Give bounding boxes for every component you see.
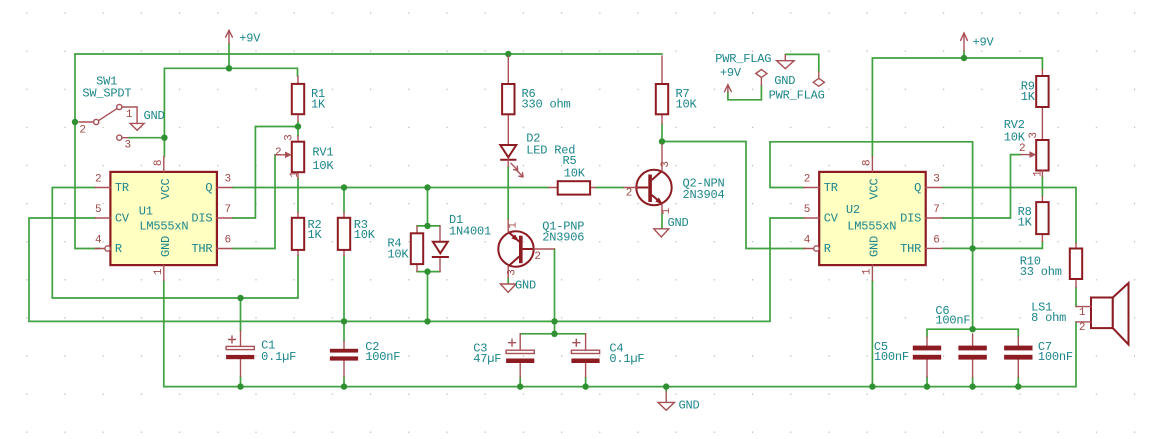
svg-text:1: 1 xyxy=(289,171,301,178)
capacitor C5 xyxy=(874,337,941,377)
wire +9V left stem xyxy=(228,44,230,69)
svg-text:4: 4 xyxy=(804,235,811,247)
svg-text:GND: GND xyxy=(679,399,700,413)
wire +9V rail1 top from switch to R7 xyxy=(75,53,662,55)
pin 5 U2 CV xyxy=(804,204,819,218)
op-amp U2 LM555xN body xyxy=(819,172,926,265)
wire R4 D1 top bar xyxy=(417,225,440,227)
junction +9V left xyxy=(226,65,232,71)
svg-text:1: 1 xyxy=(1079,307,1086,319)
svg-text:THR: THR xyxy=(900,242,921,256)
svg-text:1: 1 xyxy=(126,109,133,121)
wire U1 GND column xyxy=(163,281,165,387)
svg-text:CV: CV xyxy=(115,212,130,226)
resistor R8 xyxy=(1018,196,1049,241)
svg-text:100nF: 100nF xyxy=(1038,350,1073,364)
junction Q line R3 xyxy=(341,184,347,190)
svg-text:10K: 10K xyxy=(312,159,334,173)
svg-text:LED Red: LED Red xyxy=(526,144,575,158)
ground symbol bottom center xyxy=(658,392,700,413)
power symbol +9V at PWR_FLAG xyxy=(715,52,771,92)
resistor R4 xyxy=(387,226,423,272)
power symbol +9V left xyxy=(226,30,262,45)
pin 7 U1 DIS xyxy=(217,204,232,218)
pin 3 U1 Q xyxy=(217,174,232,188)
wire C1 bottom to bus xyxy=(240,377,242,387)
svg-text:8: 8 xyxy=(861,160,873,166)
op-amp U1 LM555xN body xyxy=(110,172,216,265)
wire +9V right stem xyxy=(963,51,965,58)
pin 8 U2 VCC xyxy=(861,157,873,172)
wire C7 top stub xyxy=(1017,329,1019,337)
junction bus C1 xyxy=(237,383,243,389)
wire U1 Q output line xyxy=(232,187,549,189)
svg-text:2: 2 xyxy=(1079,322,1085,334)
wire R7 bottom to junction xyxy=(661,124,663,142)
svg-text:R: R xyxy=(824,242,831,256)
wire U2 Q to R10 xyxy=(942,188,1076,244)
svg-text:LM555xN: LM555xN xyxy=(847,220,896,234)
junction switch common xyxy=(72,119,78,125)
svg-text:2: 2 xyxy=(95,174,101,186)
svg-text:DIS: DIS xyxy=(191,212,212,226)
resistor R9 xyxy=(1021,70,1049,141)
svg-text:3: 3 xyxy=(224,174,230,186)
junction C6 top xyxy=(969,326,975,332)
wire switch pin3 to VCC vertical xyxy=(128,137,164,139)
pin 5 U1 CV xyxy=(95,204,110,218)
wire RV2 bottom to R8 top xyxy=(1041,177,1043,197)
potentiometer RV1 xyxy=(275,135,334,178)
svg-text:47µF: 47µF xyxy=(473,352,501,366)
svg-text:2: 2 xyxy=(275,147,281,159)
resistor R3 xyxy=(338,212,376,255)
resistor R6 xyxy=(502,56,570,145)
junction U2 TR THR xyxy=(969,245,975,251)
wire CV bus U1 to U2 xyxy=(29,218,804,321)
wire R4 D1 bottom bar xyxy=(417,271,440,273)
svg-text:CV: CV xyxy=(824,212,839,226)
resistor R2 xyxy=(292,212,323,255)
wire C2 bottom to bus xyxy=(343,377,345,387)
svg-text:3: 3 xyxy=(506,270,518,276)
svg-text:GND: GND xyxy=(774,74,795,88)
svg-text:5: 5 xyxy=(804,204,810,216)
wire +9V right rail to U2 VCC and R9 xyxy=(872,58,1042,157)
wire C3 C4 top stub xyxy=(554,321,556,333)
svg-text:GND: GND xyxy=(159,236,173,257)
capacitor C2 xyxy=(330,340,400,377)
svg-text:100nF: 100nF xyxy=(874,350,909,364)
pin 6 U1 THR xyxy=(217,235,232,249)
junction switch pin3 VCC xyxy=(161,135,167,141)
wire R3 column from Q line to C2 xyxy=(343,188,345,342)
wire Q1 base to C3 C4 node xyxy=(554,249,556,321)
wire R4 D1 bottom to CV bus xyxy=(427,272,429,322)
svg-text:2N3906: 2N3906 xyxy=(542,230,584,244)
wire U1 DIS to R1 bottom junction xyxy=(232,127,298,219)
resistor R5 xyxy=(549,154,595,195)
wire U1 TR net to R2 bottom and C1 xyxy=(52,188,298,299)
junction bus C5 xyxy=(924,383,930,389)
wire Q line down to R4 D1 branch xyxy=(427,188,429,226)
svg-text:3: 3 xyxy=(933,174,939,186)
wire U2 TR up and over to THR junction xyxy=(770,142,973,249)
switch SW1 SW_SPDT xyxy=(79,75,137,152)
svg-text:1K: 1K xyxy=(311,98,326,112)
wire C6 bottom to bus xyxy=(972,377,974,387)
svg-text:3: 3 xyxy=(124,139,130,151)
wire rail2 +9V to U1 VCC and R1 xyxy=(164,68,297,156)
power symbol +9V right xyxy=(961,33,995,51)
svg-text:+9V: +9V xyxy=(720,66,742,80)
junction bus C2 xyxy=(341,383,347,389)
wire R10 bottom to LS1 pin1 xyxy=(1075,287,1077,306)
svg-text:GND: GND xyxy=(868,236,882,257)
pin 2 U1 TR xyxy=(95,174,110,188)
pin 4 U2 R inverted xyxy=(804,235,819,252)
wire D2 cathode to Q1 emitter xyxy=(507,166,509,220)
svg-text:U2: U2 xyxy=(846,203,860,217)
wire U2 GND column xyxy=(871,281,873,387)
svg-text:1K: 1K xyxy=(308,228,323,242)
wire switch common vertical to U1 reset pin xyxy=(75,54,100,249)
wire Q2 collector junction to U2 reset pin xyxy=(662,142,805,249)
ground symbol at PWR_FLAG xyxy=(774,54,795,88)
pin 1 U1 GND xyxy=(153,265,165,280)
svg-text:PWR_FLAG: PWR_FLAG xyxy=(715,52,771,66)
svg-text:3: 3 xyxy=(660,161,672,167)
ground symbol at switch xyxy=(130,109,164,130)
capacitor C4 xyxy=(571,334,644,377)
svg-text:7: 7 xyxy=(224,204,230,216)
svg-text:1K: 1K xyxy=(1021,90,1036,104)
svg-text:2: 2 xyxy=(626,188,632,200)
svg-text:8 ohm: 8 ohm xyxy=(1031,311,1066,325)
svg-text:4: 4 xyxy=(95,235,102,247)
svg-text:1: 1 xyxy=(1033,170,1045,177)
wire PWR_FLAG GND link xyxy=(785,54,819,71)
svg-text:3: 3 xyxy=(1028,132,1040,138)
svg-text:1: 1 xyxy=(661,207,673,214)
svg-text:33 ohm: 33 ohm xyxy=(1020,265,1062,279)
wire C5 bottom to bus xyxy=(926,377,928,387)
wire C3 bottom to bus xyxy=(519,377,521,387)
junction bus GND xyxy=(663,383,669,389)
capacitor C6 xyxy=(935,304,986,377)
svg-text:1: 1 xyxy=(508,222,520,229)
junction bus U2 GND xyxy=(869,383,875,389)
wire THR junction down to C6 xyxy=(972,248,974,329)
pin 3 U2 Q xyxy=(926,174,942,188)
wire PWR_FLAG +9V link xyxy=(728,85,762,100)
svg-text:6: 6 xyxy=(933,235,939,247)
svg-text:SW_SPDT: SW_SPDT xyxy=(82,86,131,100)
svg-text:TR: TR xyxy=(115,181,129,195)
svg-text:VCC: VCC xyxy=(868,178,882,199)
wire C5 top stub xyxy=(926,329,928,337)
svg-text:GND: GND xyxy=(144,109,165,123)
svg-text:10K: 10K xyxy=(676,98,698,112)
pin 2 U2 TR xyxy=(804,174,819,188)
junction CV bus Q1 base xyxy=(551,318,557,324)
svg-text:2: 2 xyxy=(804,174,810,186)
svg-text:U1: U1 xyxy=(139,205,153,219)
svg-text:GND: GND xyxy=(515,279,536,293)
svg-text:10K: 10K xyxy=(564,167,586,181)
diode D1 1N4001 xyxy=(432,213,491,272)
svg-text:8: 8 xyxy=(153,160,165,166)
wire RV1 bottom to R2 top xyxy=(297,178,299,212)
junction rail1 R6 xyxy=(505,51,511,57)
wire R8 bottom to THR line xyxy=(942,241,1042,248)
junction bus C7 xyxy=(1015,383,1021,389)
junction R4 D1 top xyxy=(424,223,430,229)
svg-text:1N4001: 1N4001 xyxy=(449,225,491,239)
wire C7 bottom to bus xyxy=(1017,377,1019,387)
junction CV bus R3 C2 xyxy=(341,318,347,324)
svg-text:+9V: +9V xyxy=(239,31,261,45)
wire Q1 collector to GND xyxy=(507,278,509,284)
transistor Q2 2N3904 xyxy=(624,144,725,214)
svg-text:LM555xN: LM555xN xyxy=(139,220,188,234)
diode D2 LED Red xyxy=(500,132,575,177)
svg-text:10K: 10K xyxy=(387,248,409,262)
svg-text:0.1µF: 0.1µF xyxy=(609,352,644,366)
pin 4 U1 R inverted xyxy=(95,235,110,252)
junction bus C4 xyxy=(582,383,588,389)
transistor Q1 2N3906 xyxy=(498,220,584,278)
junction bus C6 xyxy=(969,383,975,389)
junction Q line R4 D1 xyxy=(424,184,430,190)
wire Q2 emitter to GND xyxy=(661,214,663,228)
junction TR bus C1 xyxy=(237,295,243,301)
svg-text:Q: Q xyxy=(205,181,212,195)
svg-text:2: 2 xyxy=(534,251,540,263)
wire bottom GND symbol stem xyxy=(665,387,667,392)
ground symbol at Q1 xyxy=(500,279,536,293)
capacitor C1 xyxy=(226,331,296,377)
resistor R7 xyxy=(656,56,698,124)
resistor R1 xyxy=(292,76,326,121)
wire C3 C4 top bar xyxy=(520,333,585,335)
pin 1 U2 GND xyxy=(861,265,873,280)
svg-text:3: 3 xyxy=(284,135,296,141)
wire U2 DIS to RV2 wiper xyxy=(942,155,1021,218)
svg-text:1K: 1K xyxy=(1018,215,1033,229)
svg-text:100nF: 100nF xyxy=(935,313,970,327)
junction R4 D1 bottom xyxy=(424,268,430,274)
svg-text:2: 2 xyxy=(1019,143,1025,155)
svg-text:6: 6 xyxy=(224,235,230,247)
svg-text:VCC: VCC xyxy=(159,178,173,199)
power flag PF2 diamond xyxy=(769,72,825,103)
junction +9V right xyxy=(961,55,967,61)
svg-text:DIS: DIS xyxy=(900,212,921,226)
pin 6 U2 THR xyxy=(926,235,943,249)
pin 8 U1 VCC xyxy=(153,157,165,172)
svg-text:+9V: +9V xyxy=(973,36,995,50)
ground symbol at Q2 xyxy=(654,216,689,237)
junction CV bus R4 D1 xyxy=(424,318,430,324)
junction bus C3 xyxy=(517,383,523,389)
resistor R10 xyxy=(1020,243,1083,287)
svg-text:10K: 10K xyxy=(354,228,376,242)
power flag PF1 diamond xyxy=(756,70,767,86)
speaker LS1 xyxy=(1031,283,1128,345)
wire C1 top branch xyxy=(240,298,242,331)
svg-text:GND: GND xyxy=(668,216,689,230)
svg-text:RV1: RV1 xyxy=(312,146,333,160)
junction R7 Q2 collector xyxy=(659,138,665,144)
svg-text:0.1µF: 0.1µF xyxy=(261,350,296,364)
svg-text:5: 5 xyxy=(95,204,101,216)
wire C4 bottom to bus xyxy=(585,377,587,387)
svg-text:2N3904: 2N3904 xyxy=(683,188,725,202)
junction C3 C4 bar xyxy=(551,331,557,337)
svg-text:R: R xyxy=(115,242,122,256)
svg-text:THR: THR xyxy=(191,242,212,256)
pin 7 U2 DIS xyxy=(926,204,942,218)
svg-text:Q: Q xyxy=(914,181,921,195)
wire R5 to Q2 base xyxy=(595,187,624,189)
svg-text:1: 1 xyxy=(153,268,165,275)
svg-text:1: 1 xyxy=(861,268,873,275)
capacitor C3 xyxy=(473,334,534,377)
capacitor C7 xyxy=(1004,337,1073,377)
wire bottom ground bus xyxy=(164,322,1076,387)
wire R1 bottom to RV1 top xyxy=(297,122,299,137)
wire U1 THR to RV1 wiper xyxy=(232,155,275,249)
svg-text:7: 7 xyxy=(933,204,939,216)
svg-text:PWR_FLAG: PWR_FLAG xyxy=(769,89,825,103)
junction R1 RV1 DIS xyxy=(295,123,301,129)
potentiometer RV2 xyxy=(1004,118,1049,177)
svg-text:TR: TR xyxy=(824,181,838,195)
wire C5 C6 C7 top bar xyxy=(927,328,1018,330)
svg-text:100nF: 100nF xyxy=(365,350,400,364)
svg-text:2: 2 xyxy=(79,124,85,136)
svg-text:330 ohm: 330 ohm xyxy=(522,98,571,112)
